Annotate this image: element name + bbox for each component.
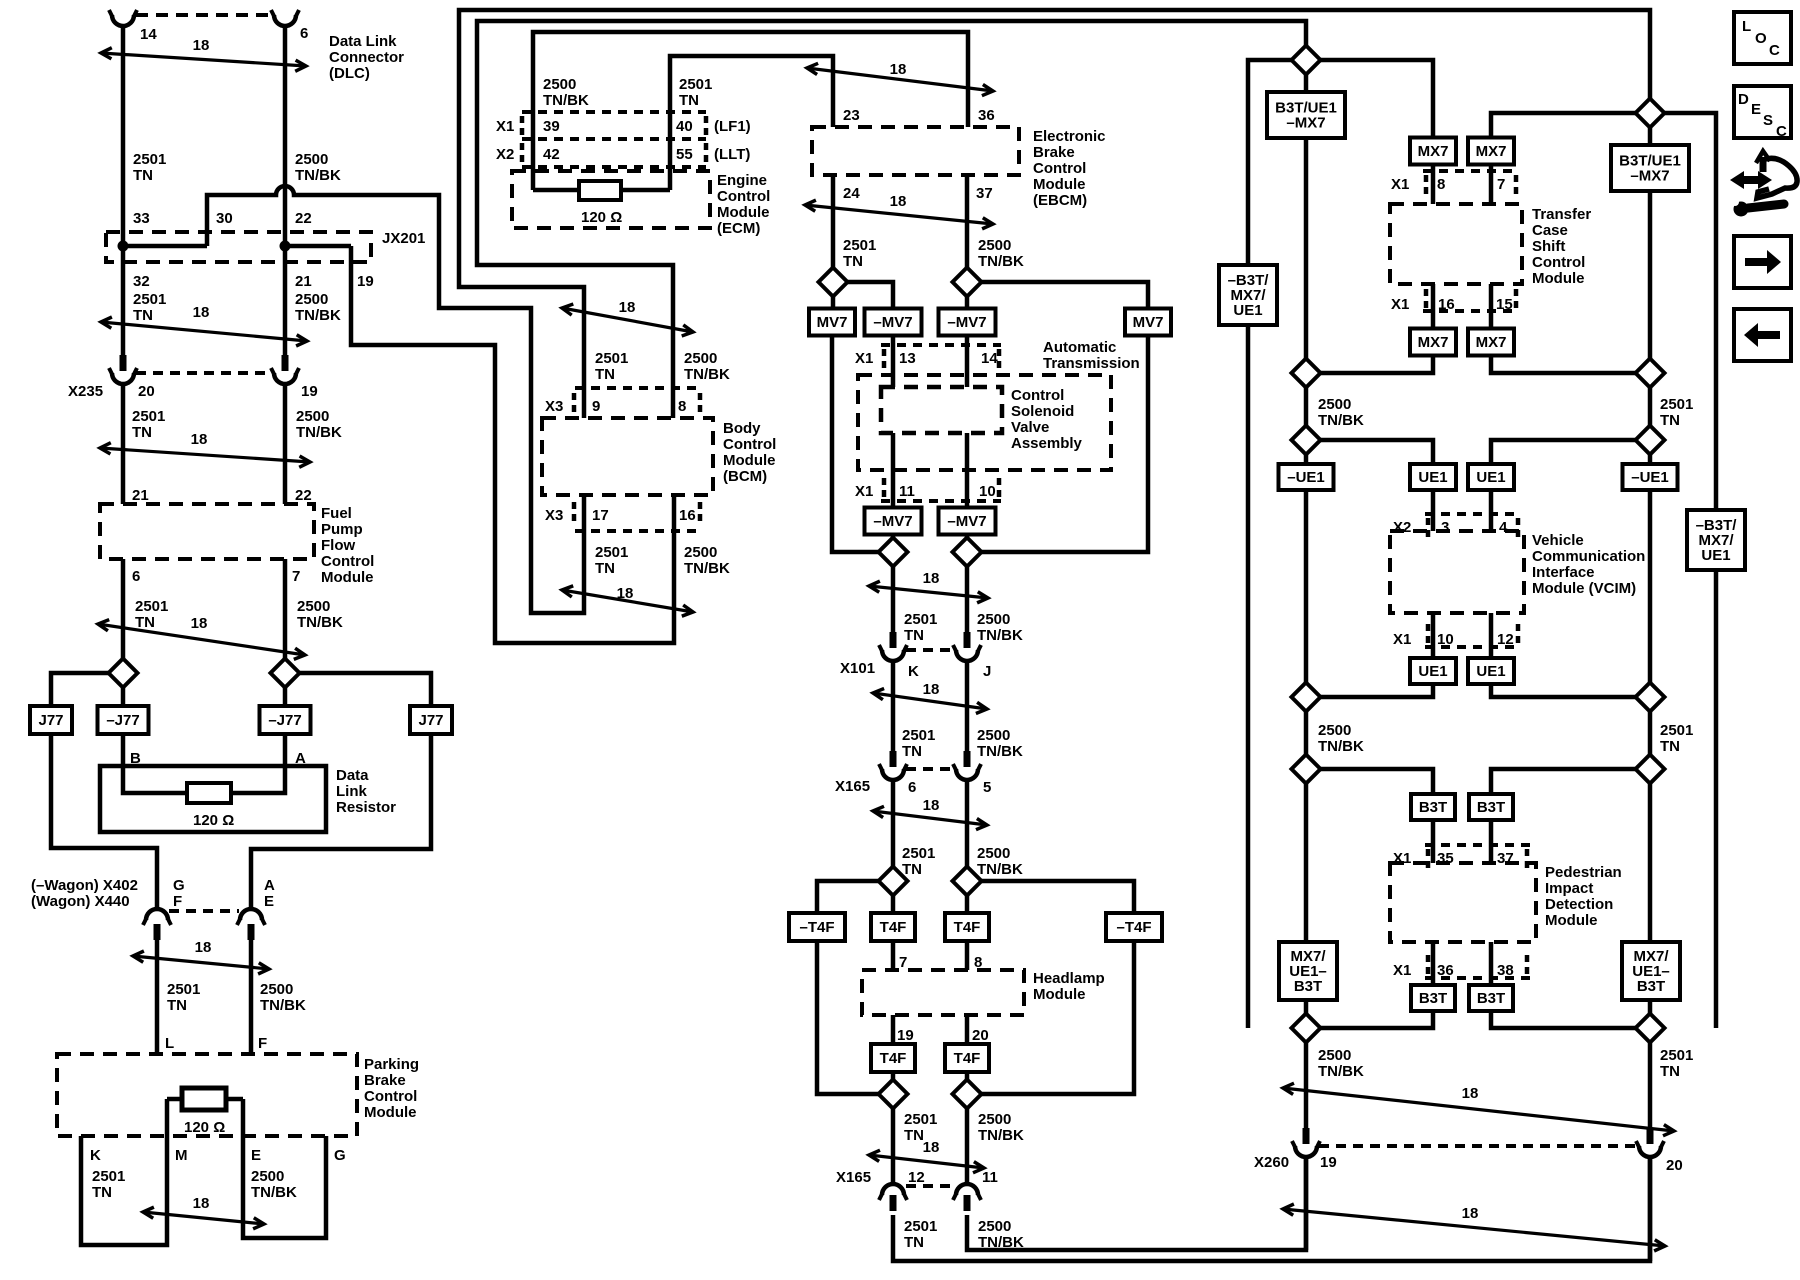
svg-text:F: F <box>258 1035 267 1052</box>
connector X101-J male <box>964 632 971 648</box>
svg-text:Data: Data <box>336 767 369 784</box>
svg-text:8: 8 <box>678 398 686 415</box>
harness code J77 <box>410 706 452 734</box>
svg-text:X1: X1 <box>1391 296 1409 313</box>
wire 2501 to -UE1 <box>1648 454 1653 465</box>
wire MX7 to splice right <box>1491 356 1636 373</box>
wire 2500 through B3T/UE1-MX7 <box>1304 74 1309 359</box>
splice 2501 top right <box>1636 99 1665 128</box>
svg-text:A: A <box>264 877 275 894</box>
svg-text:–MV7: –MV7 <box>947 513 986 530</box>
svg-text:–T4F: –T4F <box>799 919 834 936</box>
module FPFCM title <box>321 505 374 586</box>
wire TCSCM pin 15 to MX7 <box>1489 284 1494 329</box>
module Headlamp title <box>1033 970 1105 1003</box>
module Automatic Transmission box <box>858 375 1111 470</box>
label 2501 TN <box>904 1111 937 1144</box>
resistor 120 ohm parking brake <box>182 1088 226 1110</box>
connector X260-20 male <box>1647 1128 1654 1144</box>
svg-text:B3T: B3T <box>1637 978 1665 995</box>
BCM row col <box>572 393 577 412</box>
harness code B3T <box>1469 985 1513 1011</box>
svg-text:–J77: –J77 <box>268 712 301 729</box>
connector X165-6 cup <box>879 764 907 780</box>
wire 2500 through MX7/UE1-B3T <box>1304 783 1309 1014</box>
svg-text:E: E <box>1751 101 1761 118</box>
module CSVA title <box>1011 387 1083 452</box>
wire branch to UE1 right <box>1491 440 1636 465</box>
svg-text:(LF1): (LF1) <box>714 118 751 135</box>
connector X165 lower dashed body <box>906 1184 954 1188</box>
svg-text:Control: Control <box>1532 254 1585 271</box>
svg-text:18: 18 <box>191 615 208 632</box>
harness code UE1 <box>1410 464 1456 490</box>
resistor 120 ohm ECM <box>579 181 621 200</box>
harness code -UE1 <box>1279 464 1334 490</box>
wire 2501 TN X402-F to PBCM-L <box>155 940 160 1054</box>
module ECM title <box>717 172 770 237</box>
svg-text:18: 18 <box>890 193 907 210</box>
wire PBCM E to G loop <box>243 1099 326 1238</box>
wire -UE1 to splice below right <box>1648 490 1653 683</box>
wire branch to B3T right <box>1491 769 1636 794</box>
svg-text:J: J <box>983 663 991 680</box>
legend bidirectional arrow + wrench icon <box>1730 151 1797 217</box>
svg-text:MX7: MX7 <box>1476 334 1507 351</box>
svg-text:18: 18 <box>193 304 210 321</box>
svg-text:X260: X260 <box>1254 1154 1289 1171</box>
svg-text:Module: Module <box>1545 912 1598 929</box>
harness code -B3T/MX7/UE1 <box>1219 265 1277 325</box>
BCM pin row X3 top line <box>575 386 700 390</box>
svg-text:22: 22 <box>295 487 312 504</box>
svg-text:–T4F: –T4F <box>1116 919 1151 936</box>
svg-text:2500: 2500 <box>295 291 328 308</box>
wire 2501 TN DLC-14 to X235 <box>121 26 126 355</box>
svg-text:2500: 2500 <box>978 1111 1011 1128</box>
PIDM row col <box>1525 955 1530 974</box>
svg-text:13: 13 <box>899 350 916 367</box>
wire X260-20 down <box>1648 1157 1653 1261</box>
wire -UE1 to splice below <box>1304 490 1309 683</box>
svg-text:X1: X1 <box>1391 176 1409 193</box>
splice 2500 top right <box>1292 46 1321 75</box>
wire B3T to PIDM pin 37 <box>1489 820 1494 863</box>
label 2501 TN <box>133 151 166 184</box>
svg-text:UE1: UE1 <box>1701 547 1730 564</box>
label 2501 TN <box>904 611 937 644</box>
wire gauge 18 mark <box>807 61 993 96</box>
svg-text:X1: X1 <box>855 483 873 500</box>
wire VCIM pin 10 to UE1 <box>1431 613 1436 658</box>
module PIDM title <box>1545 864 1622 929</box>
svg-text:X1: X1 <box>496 118 514 135</box>
svg-text:TN/BK: TN/BK <box>978 253 1024 270</box>
module DLC title <box>329 33 404 82</box>
wire branch to MV7 right <box>981 282 1148 308</box>
svg-text:21: 21 <box>295 273 312 290</box>
svg-text:2500: 2500 <box>1318 396 1351 413</box>
harness code MX7 <box>1410 329 1456 356</box>
harness code UE1 <box>1468 464 1514 490</box>
VCIM row col <box>1426 518 1431 537</box>
wire gauge 18 mark <box>805 193 993 229</box>
wire 2501 TN splice to X101-K <box>891 566 896 632</box>
AT row col <box>882 349 887 368</box>
splice 2501 above headlamp <box>879 867 908 896</box>
svg-text:22: 22 <box>295 210 312 227</box>
svg-text:2501: 2501 <box>132 408 165 425</box>
svg-text:10: 10 <box>979 483 996 500</box>
svg-text:2501: 2501 <box>133 151 166 168</box>
svg-text:UE1: UE1 <box>1233 302 1262 319</box>
svg-text:Flow: Flow <box>321 537 355 554</box>
svg-text:K: K <box>90 1147 101 1164</box>
svg-text:120 Ω: 120 Ω <box>184 1119 225 1136</box>
label 2500 TN/BK <box>684 350 730 383</box>
svg-text:2501: 2501 <box>595 350 628 367</box>
label 2501 TN <box>167 981 200 1014</box>
ECM pin row X2 bottom line <box>522 165 706 169</box>
svg-text:Pump: Pump <box>321 521 363 538</box>
label 2500 TN/BK <box>1318 396 1364 429</box>
wire branch to B3T left <box>1320 769 1433 794</box>
legend DESC box <box>1734 86 1791 140</box>
PIDM row col <box>1525 849 1530 868</box>
BCM row col <box>572 502 577 521</box>
PIDM row col <box>1426 955 1431 974</box>
BCM pin row X3 bottom line <box>575 529 700 533</box>
svg-text:X165: X165 <box>835 778 870 795</box>
splice 2500 below EBCM <box>953 268 982 297</box>
wire branch to MX7 transfer top right <box>1491 113 1636 138</box>
svg-text:2500: 2500 <box>260 981 293 998</box>
svg-text:2500: 2500 <box>684 544 717 561</box>
svg-text:19: 19 <box>897 1027 914 1044</box>
wire gauge 18 mark <box>873 797 987 830</box>
svg-text:–MV7: –MV7 <box>873 513 912 530</box>
svg-text:23: 23 <box>843 107 860 124</box>
module Transfer Case Shift Control Module box <box>1390 204 1522 284</box>
svg-text:2500: 2500 <box>251 1168 284 1185</box>
svg-text:–MX7: –MX7 <box>1286 115 1325 132</box>
label 2500 TN/BK <box>295 151 341 184</box>
wire X260-19 down <box>1304 1157 1309 1250</box>
wire gauge 18 mark <box>100 431 310 467</box>
label 2500 TN/BK <box>978 1218 1024 1251</box>
wire 2500 TN/BK X101 to X165 <box>965 661 970 751</box>
svg-text:TN: TN <box>1660 412 1680 429</box>
connector X402-G cup <box>143 909 171 925</box>
label 2500 TN/BK <box>978 1111 1024 1144</box>
svg-text:Solenoid: Solenoid <box>1011 403 1074 420</box>
svg-text:2501: 2501 <box>902 845 935 862</box>
svg-text:T4F: T4F <box>954 1050 981 1067</box>
splice 2500 mid right <box>1292 359 1321 388</box>
svg-text:TN/BK: TN/BK <box>543 92 589 109</box>
connector X165 dashed body <box>906 767 954 771</box>
svg-text:TN/BK: TN/BK <box>1318 1063 1364 1080</box>
svg-text:Connector: Connector <box>329 49 404 66</box>
VCIM row col <box>1516 518 1521 537</box>
wire headlamp pin 19 to T4F <box>891 1015 896 1044</box>
wire 2501 TN BCM X3-9 to right network top bus <box>459 10 1650 418</box>
svg-text:Pedestrian: Pedestrian <box>1545 864 1622 881</box>
label 2500 TN/BK <box>251 1168 297 1201</box>
wire T4F to splice right <box>965 1071 970 1080</box>
connector X101-K male <box>890 632 897 648</box>
svg-text:TN/BK: TN/BK <box>684 560 730 577</box>
connector X165-11 cup <box>953 1184 981 1200</box>
svg-text:S: S <box>1763 112 1773 129</box>
harness code UE1 <box>1410 658 1456 684</box>
wire headlamp pin 20 to T4F <box>965 1015 970 1044</box>
wire PBCM M to K loop <box>81 1099 167 1245</box>
svg-text:36: 36 <box>978 107 995 124</box>
wire branch to -MV7 <box>847 282 893 308</box>
svg-text:2500: 2500 <box>1318 722 1351 739</box>
svg-text:8: 8 <box>1437 176 1445 193</box>
svg-text:TN/BK: TN/BK <box>295 167 341 184</box>
harness code MX7 <box>1410 138 1456 165</box>
svg-text:19: 19 <box>357 273 374 290</box>
AT pin row bottom line <box>881 499 1001 503</box>
svg-text:2501: 2501 <box>595 544 628 561</box>
svg-text:UE1: UE1 <box>1418 469 1447 486</box>
svg-text:2500: 2500 <box>978 237 1011 254</box>
svg-text:2501: 2501 <box>843 237 876 254</box>
module Automatic Transmission title <box>1043 339 1140 372</box>
TCSCM row col <box>1514 289 1519 308</box>
svg-text:C: C <box>1769 42 1780 59</box>
wire 2500 splice to splice <box>1304 387 1309 426</box>
wire 2500 TN/BK ECM-39/42 to EBCM-36 <box>533 32 968 190</box>
svg-text:TN: TN <box>132 424 152 441</box>
wire 2500 TN/BK BCM X3-8 to right network bus <box>477 21 1306 418</box>
harness code T4F <box>871 1044 915 1072</box>
svg-text:–MV7: –MV7 <box>947 314 986 331</box>
svg-text:–UE1: –UE1 <box>1631 469 1669 486</box>
svg-text:2501: 2501 <box>904 611 937 628</box>
harness code MV7 <box>1125 309 1171 336</box>
harness code -MV7 <box>939 508 996 535</box>
label 2501 TN <box>904 1218 937 1251</box>
svg-text:Control: Control <box>717 188 770 205</box>
svg-text:Control: Control <box>321 553 374 570</box>
wire UE1 to VCIM pin 4 <box>1489 490 1494 531</box>
svg-text:TN: TN <box>133 307 153 324</box>
svg-text:T4F: T4F <box>880 1050 907 1067</box>
ECM row col <box>704 143 709 162</box>
connector X260-19 cup <box>1292 1141 1320 1157</box>
label 2500 TN/BK <box>684 544 730 577</box>
connector DLC dashed body <box>136 13 272 17</box>
module PBCM title <box>364 1056 419 1121</box>
svg-text:(EBCM): (EBCM) <box>1033 192 1087 209</box>
svg-text:Case: Case <box>1532 222 1568 239</box>
wire bypass -B3T/MX7/UE1 right <box>1664 113 1716 1028</box>
svg-text:B3T: B3T <box>1294 978 1322 995</box>
svg-text:2500: 2500 <box>978 1218 1011 1235</box>
label 2500 TN/BK <box>297 598 343 631</box>
harness code -T4F <box>789 913 845 941</box>
svg-text:TN: TN <box>904 1234 924 1251</box>
svg-text:J77: J77 <box>38 712 63 729</box>
svg-text:TN: TN <box>167 997 187 1014</box>
connector X402-F male <box>154 924 161 940</box>
svg-text:2500: 2500 <box>977 611 1010 628</box>
ECM row col <box>520 116 525 135</box>
svg-text:2501: 2501 <box>1660 1047 1693 1064</box>
splice 2501 mid right <box>1636 359 1665 388</box>
wire splice to X260-19 <box>1304 1042 1309 1128</box>
svg-text:X1: X1 <box>1393 962 1411 979</box>
svg-text:Module: Module <box>1033 176 1086 193</box>
svg-text:E: E <box>264 893 274 910</box>
PIDM row col <box>1426 849 1431 868</box>
wire gauge 18 mark <box>562 299 693 336</box>
svg-text:18: 18 <box>617 585 634 602</box>
svg-text:Module: Module <box>1532 270 1585 287</box>
module Headlamp Module box <box>862 970 1024 1015</box>
splice 2500 below VCIM <box>1292 683 1321 712</box>
module Body Control Module box <box>542 418 713 495</box>
svg-text:G: G <box>334 1147 346 1164</box>
wire splice to splice right <box>1648 711 1653 755</box>
svg-text:TN: TN <box>904 627 924 644</box>
splice 2501 above PIDM <box>1636 755 1665 784</box>
wire -T4F bypass right <box>981 941 1134 1094</box>
svg-text:Control: Control <box>1033 160 1086 177</box>
ECM pin row X1 top line <box>522 110 706 114</box>
wire 2501 TN JX201-30 to BCM X3-17 <box>207 186 584 613</box>
svg-text:X3: X3 <box>545 507 563 524</box>
svg-text:19: 19 <box>301 383 318 400</box>
wire 2500 TN/BK JX201-19 to BCM X3-16 <box>351 246 674 643</box>
svg-text:T4F: T4F <box>880 919 907 936</box>
svg-text:2501: 2501 <box>167 981 200 998</box>
module Control Solenoid Valve Assembly box <box>881 387 1002 433</box>
svg-text:18: 18 <box>923 1139 940 1156</box>
svg-text:2501: 2501 <box>133 291 166 308</box>
connector DLC pin 14 cup <box>109 10 137 26</box>
svg-text:Resistor: Resistor <box>336 799 396 816</box>
svg-text:20: 20 <box>972 1027 989 1044</box>
svg-text:UE1: UE1 <box>1476 469 1505 486</box>
splice pack JX201 box <box>106 232 371 262</box>
AT row col <box>997 349 1002 368</box>
harness code -J77 <box>260 706 311 734</box>
svg-text:MX7: MX7 <box>1418 143 1449 160</box>
svg-text:MV7: MV7 <box>1133 314 1164 331</box>
svg-text:UE1: UE1 <box>1418 663 1447 680</box>
splice 2501 above VCIM <box>1636 426 1665 455</box>
svg-text:39: 39 <box>543 118 560 135</box>
svg-text:X235: X235 <box>68 383 103 400</box>
svg-text:B3T: B3T <box>1419 990 1447 1007</box>
svg-text:B3T: B3T <box>1419 799 1447 816</box>
label 2501 TN <box>92 1168 125 1201</box>
svg-text:32: 32 <box>133 273 150 290</box>
svg-text:2500: 2500 <box>296 408 329 425</box>
wire AT X1-11 down <box>891 433 896 508</box>
label 2501 TN <box>135 598 168 631</box>
svg-text:TN/BK: TN/BK <box>295 307 341 324</box>
svg-text:TN: TN <box>679 92 699 109</box>
svg-text:MX7: MX7 <box>1476 143 1507 160</box>
svg-text:(ECM): (ECM) <box>717 220 760 237</box>
label 2501 TN <box>595 350 628 383</box>
wire to T4F right <box>965 895 970 913</box>
svg-text:2500: 2500 <box>295 151 328 168</box>
harness code J77 <box>30 706 72 734</box>
svg-text:TN/BK: TN/BK <box>1318 738 1364 755</box>
svg-text:X101: X101 <box>840 660 875 677</box>
wire 2500 TN/BK X165-11 to X260-19 <box>967 1158 1306 1250</box>
module EBCM title <box>1033 128 1106 209</box>
wire 2501 TN X165-12 to X260-20 <box>893 1158 1650 1261</box>
harness code T4F <box>871 913 915 941</box>
connector X402-A cup <box>237 909 265 925</box>
svg-text:3: 3 <box>1441 519 1449 536</box>
wire 2500 TN/BK FPFCM-7 down <box>283 559 288 659</box>
connector X101-K cup <box>879 645 907 661</box>
connector X165-5 male <box>964 751 971 767</box>
svg-text:(DLC): (DLC) <box>329 65 370 82</box>
wire 2500 TN/BK splice to X101-J <box>965 566 970 632</box>
svg-text:18: 18 <box>193 1195 210 1212</box>
svg-text:18: 18 <box>619 299 636 316</box>
wire -T4F bypass left <box>817 941 879 1094</box>
connector X235-20 cup <box>109 368 137 384</box>
svg-text:Link: Link <box>336 783 367 800</box>
resistor 120 ohm data link <box>187 783 231 803</box>
wire PIDM pin 38 to B3T <box>1489 942 1494 985</box>
wire to T4F left <box>891 895 896 913</box>
svg-text:TN/BK: TN/BK <box>296 424 342 441</box>
wire T4F to headlamp pin 8 <box>965 941 970 970</box>
connector X165-12 male <box>890 1195 897 1211</box>
svg-text:TN/BK: TN/BK <box>978 1127 1024 1144</box>
wire JX201 internal 22-19 <box>285 244 351 249</box>
connector X235-20 male <box>120 355 127 371</box>
wire branch to -T4F left <box>817 881 879 913</box>
label 2500 TN/BK <box>296 408 342 441</box>
svg-text:X1: X1 <box>1393 631 1411 648</box>
wire 2501 TN J77 to X402-G <box>51 734 157 909</box>
wire -MV7 to AT X1-13 <box>891 335 896 387</box>
connector DLC pin 6 cup <box>271 10 299 26</box>
harness code B3T <box>1469 794 1513 820</box>
harness code -T4F <box>1106 913 1162 941</box>
svg-text:Control: Control <box>723 436 776 453</box>
svg-text:7: 7 <box>292 568 300 585</box>
svg-text:14: 14 <box>140 26 157 43</box>
wire PIDM pin 36 to B3T <box>1431 942 1436 985</box>
svg-text:UE1: UE1 <box>1476 663 1505 680</box>
svg-text:Transfer: Transfer <box>1532 206 1591 223</box>
wire 2501 TN X101 to X165 <box>891 661 896 751</box>
splice 2500 above headlamp <box>953 867 982 896</box>
wire gauge 18 mark <box>143 1195 264 1229</box>
svg-text:18: 18 <box>195 939 212 956</box>
module VCIM title <box>1532 532 1645 597</box>
wire 2500 TN/BK -J77 to resistor A <box>231 734 285 793</box>
wire splice to MV7 <box>831 296 836 308</box>
svg-text:20: 20 <box>1666 1157 1683 1174</box>
splice 2501 below VCIM <box>1636 683 1665 712</box>
svg-text:2500: 2500 <box>977 727 1010 744</box>
